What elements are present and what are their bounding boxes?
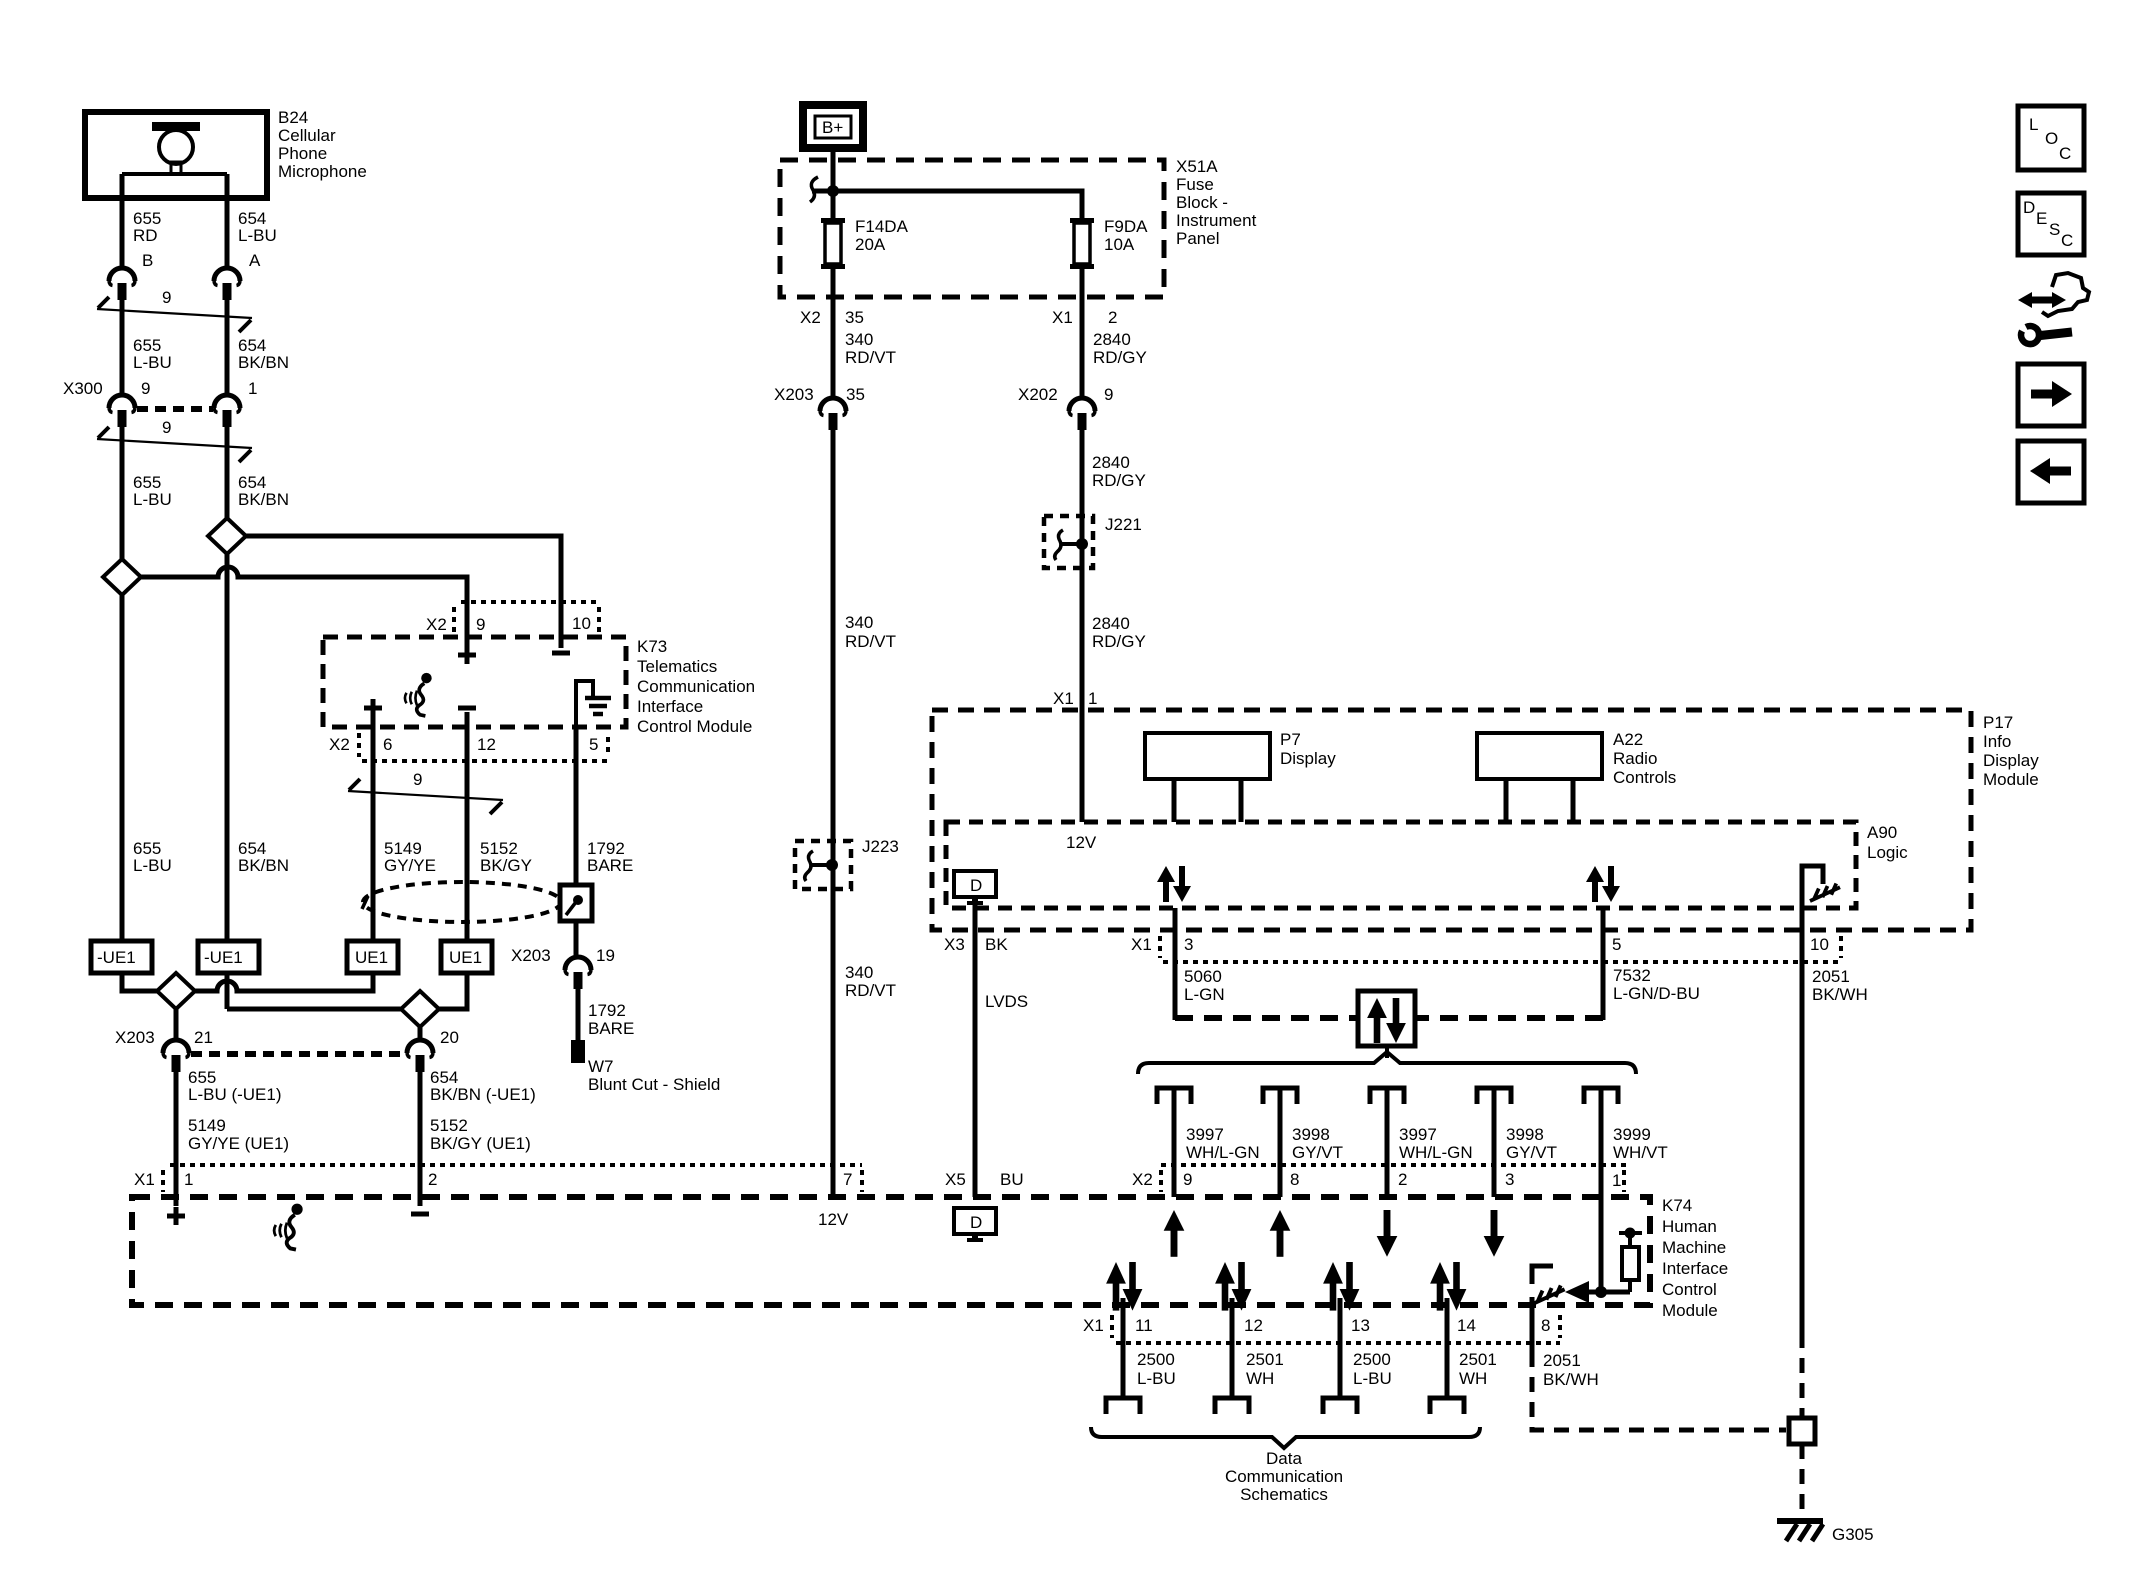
svg-text:35: 35 <box>846 385 865 404</box>
wire from right splice down to X203 pin 20 <box>418 1027 423 1040</box>
svg-text:19: 19 <box>596 946 615 965</box>
svg-text:12V: 12V <box>1066 833 1097 852</box>
svg-text:WH/L-GN: WH/L-GN <box>1186 1143 1260 1162</box>
up arrow into K74 pin 9 <box>1164 1210 1185 1257</box>
wire 3999 WH/VT (pin1) <box>1599 1090 1604 1292</box>
wire 2501 WH pin 14 <box>1445 1298 1450 1398</box>
svg-text:3: 3 <box>1184 935 1193 954</box>
svg-text:BK/WH: BK/WH <box>1543 1370 1599 1389</box>
svg-text:Control Module: Control Module <box>637 717 752 736</box>
speaker icon inside K74 <box>274 1204 303 1250</box>
svg-text:GY/VT: GY/VT <box>1506 1143 1557 1162</box>
svg-text:2: 2 <box>1398 1170 1407 1189</box>
svg-text:11: 11 <box>1135 1316 1153 1335</box>
wire 2501 WH pin 12 <box>1230 1298 1235 1398</box>
svg-text:3998: 3998 <box>1292 1125 1330 1144</box>
option box -UE1 (wire 655) <box>91 941 152 973</box>
svg-text:LVDS: LVDS <box>985 992 1028 1011</box>
connector X203 pin 21 <box>163 1040 189 1072</box>
svg-text:BARE: BARE <box>588 1019 634 1038</box>
icon DESC box <box>2018 193 2084 255</box>
svg-text:X1: X1 <box>1053 689 1074 708</box>
svg-text:UE1: UE1 <box>449 948 482 967</box>
svg-text:Microphone: Microphone <box>278 162 367 181</box>
svg-text:L-GN: L-GN <box>1184 985 1225 1004</box>
svg-text:Controls: Controls <box>1613 768 1676 787</box>
label wire 655 RD <box>133 209 161 245</box>
svg-text:X1: X1 <box>1083 1316 1104 1335</box>
module K74 dashed box <box>132 1197 1650 1305</box>
svg-text:B+: B+ <box>822 118 843 137</box>
svg-text:Human: Human <box>1662 1217 1717 1236</box>
svg-text:WH: WH <box>1459 1369 1487 1388</box>
wire 654 continues down <box>225 553 230 941</box>
plus terminal top inside K73 <box>458 646 476 664</box>
wire 3998 GY/VT (pin8) <box>1278 1090 1283 1197</box>
display D symbol at K74 <box>954 1208 996 1242</box>
svg-text:3: 3 <box>1505 1170 1514 1189</box>
svg-text:X2: X2 <box>329 735 350 754</box>
splice diamond on wire 654 <box>208 518 246 554</box>
svg-text:2501: 2501 <box>1459 1350 1497 1369</box>
svg-text:340: 340 <box>845 963 873 982</box>
svg-text:Display: Display <box>1983 751 2039 770</box>
cup terminal 3997 <box>1157 1088 1191 1104</box>
cup terminal 3998 <box>1263 1088 1297 1104</box>
label wire 2051 BK/WH <box>1812 967 1868 1004</box>
ground hook inside K74 <box>1532 1266 1565 1304</box>
svg-text:L: L <box>2029 115 2038 134</box>
svg-text:340: 340 <box>845 330 873 349</box>
wire 2500 L-BU pin 11 <box>1121 1298 1126 1398</box>
ground symbol inside K73 <box>576 681 611 727</box>
svg-text:BK/BN: BK/BN <box>238 856 289 875</box>
dashed connector jumper X203 <box>191 1051 405 1057</box>
cup terminal 3997 (2) <box>1370 1088 1404 1104</box>
dashed connector jumper X300 <box>137 406 213 412</box>
svg-text:Interface: Interface <box>637 697 703 716</box>
svg-text:C: C <box>2059 144 2071 163</box>
label X51A Fuse Block - Instrument Panel <box>1176 157 1257 248</box>
svg-text:L-BU: L-BU <box>1137 1369 1176 1388</box>
wire into K73 pin 10 <box>559 602 564 648</box>
up arrow into K74 pin 8 <box>1270 1210 1291 1257</box>
wire branch from 654 diamond to K73 pin 10 <box>246 536 561 604</box>
svg-text:9: 9 <box>141 379 150 398</box>
wire 654 BK/BN segment <box>225 298 230 395</box>
svg-text:7532: 7532 <box>1613 966 1651 985</box>
minus terminal top inside K73 <box>552 652 570 654</box>
svg-text:2051: 2051 <box>1812 967 1850 986</box>
plus terminal inside K74 <box>167 1207 185 1225</box>
label 2501 WH (2) <box>1459 1350 1497 1388</box>
label wire 5152 BK/GY <box>480 839 532 875</box>
svg-text:2: 2 <box>1108 308 1117 327</box>
svg-text:Instrument: Instrument <box>1176 211 1257 230</box>
wire 3998 GY/VT (pin3) <box>1492 1090 1497 1197</box>
svg-text:10A: 10A <box>1104 235 1135 254</box>
label wire 7532 L-GN/D-BU <box>1613 966 1700 1003</box>
wire 655 L-BU segment <box>120 298 125 395</box>
icon LOC box <box>2018 106 2084 170</box>
svg-text:9: 9 <box>1104 385 1113 404</box>
svg-text:C: C <box>2061 231 2073 250</box>
label 655 L-BU (-UE1) / 5149 GY/YE (UE1) <box>188 1068 289 1153</box>
arrow pair inside A90 (pin 5) <box>1586 866 1620 902</box>
wire 2051 from pin 10 <box>1800 908 1805 1333</box>
svg-text:9: 9 <box>162 418 171 437</box>
svg-text:20A: 20A <box>855 235 886 254</box>
label wire 654 L-BU <box>238 209 277 245</box>
svg-text:UE1: UE1 <box>355 948 388 967</box>
svg-text:2051: 2051 <box>1543 1351 1581 1370</box>
svg-text:6: 6 <box>383 735 392 754</box>
svg-text:RD/GY: RD/GY <box>1092 471 1146 490</box>
label K73 Telematics Communication Interface Control Module <box>637 637 755 736</box>
component B24 Cellular Phone Microphone box <box>85 112 267 198</box>
svg-text:O: O <box>2045 129 2058 148</box>
wire 655 RD from B24 pin B <box>120 174 125 268</box>
wire into K73 pin 9 <box>465 602 470 646</box>
svg-text:Control: Control <box>1662 1280 1717 1299</box>
connector X1 of K74 left (dotted) <box>134 1165 862 1192</box>
svg-text:L-BU: L-BU <box>133 353 172 372</box>
svg-text:Telematics: Telematics <box>637 657 717 676</box>
svg-text:2840: 2840 <box>1092 614 1130 633</box>
svg-text:B: B <box>142 251 153 270</box>
label F9DA 10A <box>1104 217 1148 254</box>
svg-text:X51A: X51A <box>1176 157 1218 176</box>
svg-text:5: 5 <box>1612 935 1621 954</box>
svg-text:L-GN/D-BU: L-GN/D-BU <box>1613 984 1700 1003</box>
svg-text:E: E <box>2036 209 2047 228</box>
brace under network wires <box>1091 1427 1480 1448</box>
svg-text:2500: 2500 <box>1353 1350 1391 1369</box>
module P17 Info Display Module dashed box <box>932 710 1971 930</box>
ground hook inside A90 <box>1802 866 1840 908</box>
label wire 340 RD/VT mid <box>845 963 896 1000</box>
svg-text:9: 9 <box>413 770 422 789</box>
wire from -UE1 box 654 down <box>225 973 230 1009</box>
label 654 BK/BN (-UE1) / 5152 BK/GY (UE1) <box>430 1068 536 1153</box>
module K73 dashed box <box>323 637 626 727</box>
component A22 Radio Controls box <box>1477 733 1602 822</box>
svg-text:1792: 1792 <box>588 1001 626 1020</box>
svg-text:12: 12 <box>477 735 496 754</box>
svg-text:3997: 3997 <box>1399 1125 1437 1144</box>
svg-text:RD/GY: RD/GY <box>1093 348 1147 367</box>
connector X202 pin 9 <box>1069 398 1095 430</box>
label wire 655 L-BU (third) <box>133 839 172 875</box>
svg-text:A22: A22 <box>1613 730 1643 749</box>
svg-text:BK: BK <box>985 935 1008 954</box>
svg-text:3997: 3997 <box>1186 1125 1224 1144</box>
label wire 5060 L-GN <box>1184 967 1225 1004</box>
label wire 654 BK/BN (third) <box>238 839 289 875</box>
svg-text:Phone: Phone <box>278 144 327 163</box>
svg-text:RD/VT: RD/VT <box>845 348 896 367</box>
svg-text:L-BU: L-BU <box>133 490 172 509</box>
svg-text:Schematics: Schematics <box>1240 1485 1328 1504</box>
label 2501 WH <box>1246 1350 1284 1388</box>
wire 340 RD/VT long run <box>831 430 836 1197</box>
svg-text:X2: X2 <box>800 308 821 327</box>
svg-text:X5: X5 <box>945 1170 966 1189</box>
svg-text:2500: 2500 <box>1137 1350 1175 1369</box>
svg-text:X203: X203 <box>511 946 551 965</box>
connector X1 of P17 (dotted) <box>1160 936 1843 962</box>
label wire 655 L-BU <box>133 336 172 372</box>
label wire 340 RD/VT <box>845 330 896 367</box>
internal splice hook in fuse block <box>810 177 818 202</box>
connector X300 pin 1 <box>214 395 240 427</box>
cup terminal 2500 pin 11 <box>1106 1398 1140 1414</box>
svg-text:1: 1 <box>184 1170 193 1189</box>
icon next page arrow box <box>2018 364 2084 426</box>
connector X203 pin 19 <box>565 957 591 989</box>
svg-text:BARE: BARE <box>587 856 633 875</box>
label P17 Info Display Module <box>1983 713 2039 789</box>
svg-text:10: 10 <box>572 614 591 633</box>
label 3997 WH/L-GN <box>1186 1125 1260 1162</box>
termination resistor inside K74 <box>1619 1228 1642 1293</box>
option box UE1 (wire 5152) <box>441 941 492 973</box>
svg-text:8: 8 <box>1541 1316 1550 1335</box>
component P7 Display box <box>1145 733 1270 822</box>
svg-text:1: 1 <box>1088 689 1097 708</box>
svg-text:K73: K73 <box>637 637 667 656</box>
svg-text:A: A <box>249 251 261 270</box>
svg-text:Info: Info <box>1983 732 2011 751</box>
svg-text:WH/VT: WH/VT <box>1613 1143 1668 1162</box>
svg-text:L-BU: L-BU <box>238 226 277 245</box>
svg-text:L-BU: L-BU <box>1353 1369 1392 1388</box>
wire from splice to UE1 5152 <box>439 973 467 1009</box>
label 3997 WH/L-GN (2) <box>1399 1125 1473 1162</box>
svg-text:RD/VT: RD/VT <box>845 981 896 1000</box>
label 3999 WH/VT <box>1613 1125 1668 1162</box>
svg-text:G305: G305 <box>1832 1525 1874 1544</box>
svg-text:RD/VT: RD/VT <box>845 632 896 651</box>
svg-text:GY/YE: GY/YE <box>384 856 436 875</box>
wire branch from 655 diamond to K73 pin 9 (with hop over 654) <box>141 567 467 604</box>
svg-text:Radio: Radio <box>1613 749 1657 768</box>
microphone symbol inside B24 <box>122 122 227 174</box>
wire 3997 WH/L-GN (pin2) <box>1385 1090 1390 1197</box>
plus terminal bottom inside K73 <box>364 699 382 717</box>
wire from left splice down to X203 pin 21 <box>174 1009 179 1040</box>
down arrow from K74 pin 2 <box>1377 1210 1398 1257</box>
svg-text:Logic: Logic <box>1867 843 1908 862</box>
blunt cut terminal W7 <box>571 1040 585 1063</box>
connector X2 of K73 (bottom) <box>329 733 608 761</box>
svg-text:3999: 3999 <box>1613 1125 1651 1144</box>
svg-text:F9DA: F9DA <box>1104 217 1148 236</box>
option box UE1 (wire 5149) <box>347 941 398 973</box>
pin X1 3 labels <box>1131 935 1193 954</box>
power symbol B+ <box>803 105 863 148</box>
label wire 655 L-BU lower <box>133 473 172 509</box>
data direction box on bus <box>1358 991 1415 1046</box>
icon previous page arrow box <box>2018 441 2084 503</box>
connector X2 of K74 right (dotted) <box>1132 1165 1630 1192</box>
svg-text:1: 1 <box>248 379 257 398</box>
wire 654/5152 down to K74 X1 pin 2 <box>418 1070 423 1206</box>
svg-text:Panel: Panel <box>1176 229 1219 248</box>
svg-text:2840: 2840 <box>1093 330 1131 349</box>
svg-text:14: 14 <box>1457 1316 1476 1335</box>
svg-text:X1: X1 <box>134 1170 155 1189</box>
splice diamond lower right <box>401 991 439 1027</box>
svg-text:WH/L-GN: WH/L-GN <box>1399 1143 1473 1162</box>
svg-text:2: 2 <box>428 1170 437 1189</box>
svg-text:A90: A90 <box>1867 823 1897 842</box>
label wire 2840 RD/GY above J221 <box>1092 453 1146 490</box>
svg-text:RD: RD <box>133 226 158 245</box>
svg-text:F14DA: F14DA <box>855 217 909 236</box>
svg-text:Display: Display <box>1280 749 1336 768</box>
svg-text:Machine: Machine <box>1662 1238 1726 1257</box>
svg-text:WH: WH <box>1246 1369 1274 1388</box>
svg-text:Module: Module <box>1662 1301 1718 1320</box>
svg-text:35: 35 <box>845 308 864 327</box>
arrow pair K74 pin 11 <box>1106 1262 1142 1311</box>
pin X1 1 labels at P17 <box>1053 689 1097 708</box>
svg-text:Data: Data <box>1266 1449 1302 1468</box>
label wire 654 BK/BN <box>238 336 289 372</box>
label W7 Blunt Cut - Shield <box>588 1057 720 1094</box>
svg-text:-UE1: -UE1 <box>97 948 136 967</box>
wire 655 L-BU lower segment <box>120 425 125 560</box>
label P7 Display <box>1280 730 1336 768</box>
wire below fuse F14DA <box>831 269 836 398</box>
svg-text:2840: 2840 <box>1092 453 1130 472</box>
wire LVDS from D down <box>973 902 978 1197</box>
splice diamond lower left <box>157 973 195 1009</box>
svg-text:Cellular: Cellular <box>278 126 336 145</box>
cup terminal 3999 <box>1584 1088 1618 1104</box>
wire 5149 GY/YE from K73 pin 6 <box>371 717 376 941</box>
twisted pair symbol 9 (lower) <box>97 427 252 462</box>
svg-text:Communication: Communication <box>1225 1467 1343 1486</box>
svg-text:J223: J223 <box>862 837 899 856</box>
splice square G305 junction <box>1789 1333 1815 1516</box>
fuse F14DA 20A <box>821 218 845 269</box>
label B24 Cellular Phone Microphone <box>278 108 367 181</box>
label 2500 L-BU (2) <box>1353 1350 1392 1388</box>
svg-text:340: 340 <box>845 613 873 632</box>
icon vehicle with arrow and wrench <box>2018 273 2089 344</box>
label 2051 BK/WH lower <box>1543 1351 1599 1389</box>
svg-text:P7: P7 <box>1280 730 1301 749</box>
label wire 2840 RD/GY <box>1093 330 1147 367</box>
svg-text:9: 9 <box>162 288 171 307</box>
twisted pair symbol 9 (upper) <box>97 297 252 332</box>
svg-text:5152: 5152 <box>430 1116 468 1135</box>
internal wire to fuse F9DA <box>812 191 1082 222</box>
svg-text:BK/BN: BK/BN <box>238 490 289 509</box>
pin X1 2 labels <box>1052 308 1117 327</box>
svg-text:Blunt Cut - Shield: Blunt Cut - Shield <box>588 1075 720 1094</box>
connector X203 pin 35 labels <box>774 385 865 404</box>
svg-text:5: 5 <box>589 735 598 754</box>
label wire 5149 GY/YE <box>384 839 436 875</box>
svg-text:RD/GY: RD/GY <box>1092 632 1146 651</box>
arrow pair inside A90 (pin 3) <box>1157 866 1191 902</box>
svg-text:GY/VT: GY/VT <box>1292 1143 1343 1162</box>
svg-text:Block -: Block - <box>1176 193 1228 212</box>
svg-text:K74: K74 <box>1662 1196 1692 1215</box>
link from data box to brace <box>1385 1046 1389 1058</box>
wire 655 continues down <box>120 594 125 941</box>
label wire 654 BK/BN lower <box>238 473 289 509</box>
svg-text:BU: BU <box>1000 1170 1024 1189</box>
connector X300 pin 9 <box>109 395 135 427</box>
wire 1792 below connector <box>576 989 581 1042</box>
fuse F9DA 10A <box>1070 218 1094 269</box>
wire 1792 BARE from K73 pin 5 <box>574 727 579 957</box>
svg-text:7: 7 <box>843 1170 852 1189</box>
dashed serial data bus left <box>1173 908 1178 1020</box>
svg-text:9: 9 <box>1183 1170 1192 1189</box>
label wire 340 RD/VT above J223 <box>845 613 896 651</box>
svg-text:Module: Module <box>1983 770 2039 789</box>
wire 3997 WH/L-GN (pin9) <box>1172 1090 1177 1197</box>
svg-text:D: D <box>2023 198 2035 217</box>
svg-text:X203: X203 <box>115 1028 155 1047</box>
module A90 Logic dashed box <box>946 822 1856 908</box>
junction node in fuse block <box>827 185 839 197</box>
svg-text:P17: P17 <box>1983 713 2013 732</box>
connector X203 pin 20 <box>407 1040 433 1072</box>
wire 2051 from ground down through pin 8 <box>1530 1297 1535 1352</box>
splice J221 <box>1044 515 1142 568</box>
splice J223 <box>795 837 899 889</box>
svg-text:X1: X1 <box>1131 935 1152 954</box>
svg-text:2501: 2501 <box>1246 1350 1284 1369</box>
svg-text:X300: X300 <box>63 379 103 398</box>
svg-text:X1: X1 <box>1052 308 1073 327</box>
label K74 Human Machine Interface Control Module <box>1662 1196 1728 1320</box>
label 3998 GY/VT (2) <box>1506 1125 1557 1162</box>
label Data Communication Schematics <box>1225 1449 1343 1504</box>
svg-text:BK/WH: BK/WH <box>1812 985 1868 1004</box>
svg-text:1: 1 <box>1612 1171 1621 1190</box>
svg-text:W7: W7 <box>588 1057 614 1076</box>
svg-text:12V: 12V <box>818 1210 849 1229</box>
svg-text:X2: X2 <box>1132 1170 1153 1189</box>
svg-text:X3: X3 <box>944 935 965 954</box>
cup terminal 3998 (2) <box>1477 1088 1511 1104</box>
arrow from wire 3999 to ground <box>1565 1281 1630 1303</box>
connector pin B <box>109 268 135 300</box>
svg-text:10: 10 <box>1810 935 1829 954</box>
wire 654 L-BU from B24 pin A <box>225 174 230 268</box>
svg-text:20: 20 <box>440 1028 459 1047</box>
svg-text:BK/BN (-UE1): BK/BN (-UE1) <box>430 1085 536 1104</box>
shield ellipse (drain wire grouping) <box>362 882 561 922</box>
label wire 1792 BARE <box>587 839 633 875</box>
svg-text:Fuse: Fuse <box>1176 175 1214 194</box>
svg-text:-UE1: -UE1 <box>204 948 243 967</box>
svg-text:5149: 5149 <box>188 1116 226 1135</box>
wire below fuse F9DA <box>1080 269 1085 398</box>
speaker icon inside K73 <box>405 673 432 716</box>
connector X2 of K73 (top) <box>426 602 599 634</box>
display D symbol inside A90 <box>954 871 996 905</box>
ground G305 <box>1777 1521 1823 1541</box>
fuse block X51A dashed box <box>780 160 1164 297</box>
